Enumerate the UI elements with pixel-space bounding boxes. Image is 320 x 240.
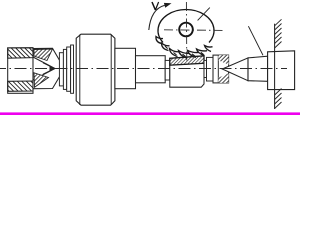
neck groove left of gear blank <box>165 60 170 80</box>
wall hatching above block <box>275 19 282 48</box>
diagonal tick on cutter rim <box>198 8 210 21</box>
tailstock centre body <box>248 56 268 81</box>
headstock housing top hatched wall <box>8 48 33 59</box>
washer 3 <box>67 47 71 91</box>
cutter bore <box>179 23 193 37</box>
collar before journal <box>207 57 214 81</box>
shaft step C <box>136 56 166 83</box>
leader line to tailstock centre <box>248 26 263 55</box>
driving center top hatched triangle <box>34 49 53 61</box>
workpiece axis centerline <box>0 68 287 70</box>
driving center bottom hatched triangle <box>34 73 49 88</box>
magenta baseline <box>0 112 300 115</box>
neck right of gear blank <box>204 60 207 77</box>
cutter vertical centerline <box>185 2 187 66</box>
washer 2 <box>63 49 66 89</box>
tailstock centre tip <box>222 58 248 81</box>
cutter horizontal centerline <box>164 29 223 32</box>
large cylinder (flange) of workpiece <box>76 34 115 105</box>
washer 4 <box>71 45 74 93</box>
driving center body outline <box>33 48 61 88</box>
journal (sectioned) <box>213 55 229 83</box>
wall hatching below block <box>275 89 282 109</box>
shaft step B <box>115 48 136 88</box>
washer 1 on spindle <box>59 53 63 86</box>
tailstock quill block <box>268 51 295 90</box>
rotation arrow <box>149 3 172 30</box>
machine wall line <box>274 24 276 109</box>
milled tooth band (hatched) on gear blank <box>170 56 204 65</box>
driving center V notch <box>33 57 55 80</box>
headstock housing outline <box>8 48 33 93</box>
milling cutter outer circle <box>158 10 214 43</box>
gear blank being milled <box>170 56 204 87</box>
cutting speed label V <box>152 2 159 10</box>
cutter teeth <box>156 37 213 59</box>
headstock housing bottom hatched wall <box>8 81 33 91</box>
